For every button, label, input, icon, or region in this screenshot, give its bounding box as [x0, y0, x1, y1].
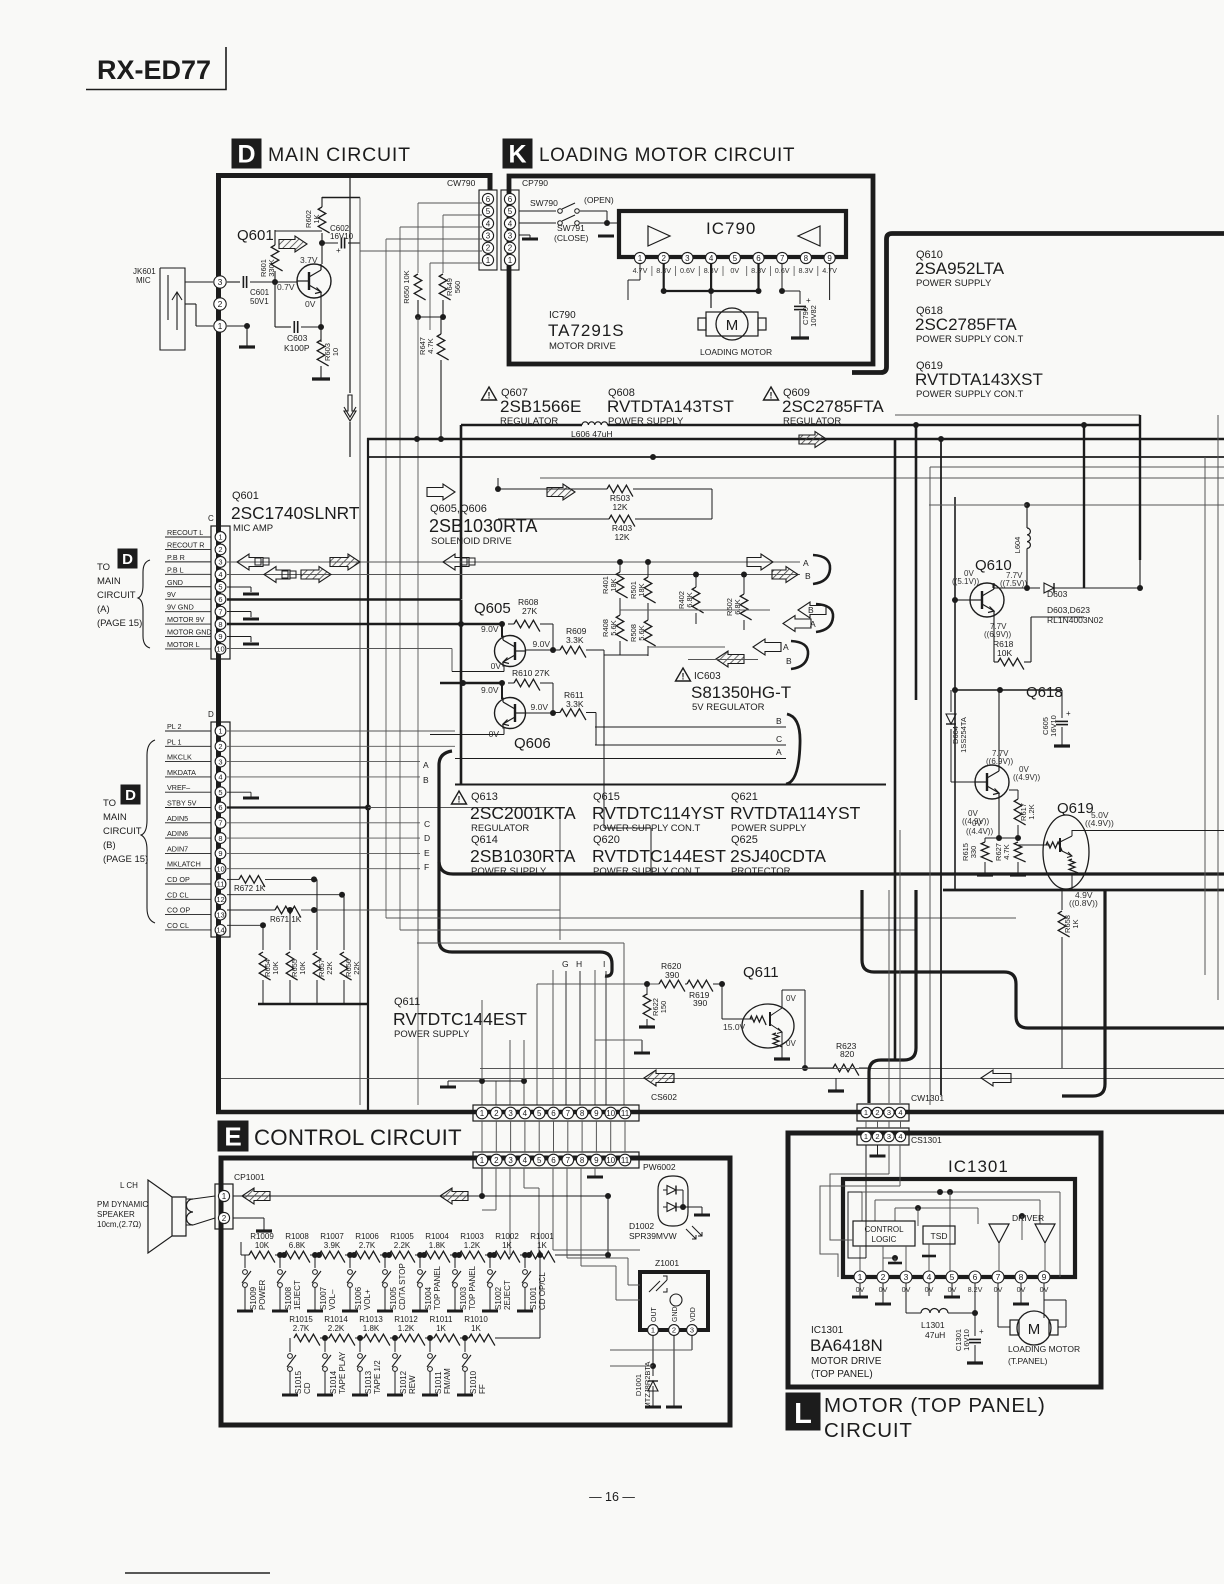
svg-text:S1015: S1015: [294, 1370, 303, 1394]
svg-text:3: 3: [218, 277, 223, 287]
regulator label IC603 S81350HG-T: [676, 668, 691, 681]
svg-text:Q601: Q601: [237, 227, 274, 244]
svg-text:S1010: S1010: [469, 1370, 478, 1394]
arrow feeds solenoid: [799, 432, 827, 448]
svg-text:POWER SUPPLY CON.T: POWER SUPPLY CON.T: [593, 823, 701, 834]
cable bundle bracket 2: [816, 604, 833, 632]
svg-text:CIRCUIT: CIRCUIT: [97, 590, 136, 601]
wire MOTOR 9V pin8 (thick): [227, 623, 502, 626]
key resistor ladder row 1: [241, 1254, 249, 1256]
svg-text:6.8K: 6.8K: [289, 1241, 306, 1250]
switch S1007 VOL–: [314, 1255, 316, 1268]
ground (S1002): [482, 1310, 498, 1313]
wire R609 route down: [603, 650, 605, 828]
svg-text:1: 1: [480, 1109, 485, 1118]
svg-text:R672 1K: R672 1K: [234, 884, 266, 893]
node pin P.B R: [215, 556, 226, 567]
node pin RECOUT L: [215, 532, 226, 543]
svg-text:LOADING MOTOR: LOADING MOTOR: [700, 347, 772, 357]
svg-text:12: 12: [216, 895, 224, 904]
switch S1010 FF: [464, 1338, 466, 1352]
svg-text:10K: 10K: [271, 961, 280, 974]
vertical feeders right: [894, 439, 897, 1060]
resistor R603 10: [320, 298, 322, 327]
svg-text:9V: 9V: [167, 590, 176, 599]
wire PW6002 to ground: [683, 1206, 702, 1208]
svg-text:S1007: S1007: [319, 1286, 328, 1310]
svg-text:2SC2785FTA: 2SC2785FTA: [782, 397, 884, 416]
svg-text:6: 6: [551, 1156, 556, 1165]
wire bus 6: [930, 504, 1224, 506]
resistor R627 4.7K: [1017, 841, 1019, 843]
node pin CD CL: [215, 894, 226, 905]
switch S1003 TOP PANEL: [454, 1255, 456, 1268]
node pin CD OP: [215, 879, 226, 890]
svg-text:8: 8: [218, 834, 222, 843]
svg-text:6.8K: 6.8K: [685, 592, 694, 607]
wire rail 784: [455, 784, 886, 786]
svg-text:F: F: [424, 862, 429, 872]
svg-text:3.9K: 3.9K: [324, 1241, 341, 1250]
LED emission arrows: [686, 1226, 702, 1239]
svg-text:6: 6: [486, 195, 491, 204]
svg-text:L604: L604: [1013, 537, 1022, 554]
svg-text:((4.4V)): ((4.4V)): [966, 827, 993, 836]
svg-text:VOL+: VOL+: [363, 1289, 372, 1310]
cable bundle thick 2: [439, 862, 1224, 874]
resistor R602 1K: [321, 197, 323, 207]
svg-text:R1015: R1015: [289, 1315, 313, 1324]
ground (S1015): [282, 1394, 298, 1397]
svg-text:MAIN: MAIN: [103, 812, 127, 823]
svg-text:TO: TO: [97, 562, 110, 573]
svg-text:2: 2: [218, 545, 222, 554]
svg-text:MOTOR 9V: MOTOR 9V: [167, 615, 205, 624]
svg-text:820: 820: [840, 1049, 854, 1059]
wire R620 rail: [537, 983, 659, 985]
wire CP1001 pin2 to ground: [233, 1217, 264, 1219]
TSD box: [923, 1226, 955, 1244]
svg-text:2SB1566E: 2SB1566E: [500, 397, 581, 416]
svg-text:3: 3: [218, 558, 222, 567]
svg-text:0V: 0V: [786, 994, 796, 1003]
cable bundle bracket 1: [813, 555, 830, 584]
svg-text:MKLATCH: MKLATCH: [167, 860, 201, 869]
switch S1006 VOL+: [349, 1255, 351, 1268]
wire D pin: [227, 852, 420, 854]
svg-text:CD OP: CD OP: [167, 875, 190, 884]
svg-text:6: 6: [508, 195, 513, 204]
svg-text:4: 4: [898, 1132, 902, 1141]
svg-text:A: A: [423, 760, 429, 770]
wire Q605 emitter to MOTOR L: [503, 665, 505, 672]
wire bundle verticals: [481, 1000, 483, 1105]
svg-text:CONTROL CIRCUIT: CONTROL CIRCUIT: [254, 1125, 462, 1150]
svg-text:(B): (B): [103, 840, 116, 851]
wire CO CL pin14: [227, 924, 263, 926]
svg-text:RVTDTC114YST: RVTDTC114YST: [592, 803, 725, 823]
wire D pin: [227, 761, 420, 763]
switch S1009 POWER: [244, 1255, 246, 1268]
svg-text:L: L: [794, 1398, 812, 1430]
wire collector node: [275, 230, 322, 232]
svg-text:5V REGULATOR: 5V REGULATOR: [692, 702, 765, 713]
switch S1004 TOP PANEL: [419, 1255, 421, 1268]
svg-text:Q621: Q621: [731, 791, 758, 803]
svg-text:10K: 10K: [298, 961, 307, 974]
wire 9V rail to Q606 (thick): [440, 682, 502, 685]
wire GND pin5 to ground: [227, 586, 251, 588]
wire CP1001 pin1 line: [233, 1195, 608, 1197]
svg-text:((7.5V)): ((7.5V)): [1000, 579, 1027, 588]
svg-text:16V10: 16V10: [962, 1329, 971, 1351]
svg-text:390: 390: [665, 970, 679, 980]
svg-text:S1013: S1013: [364, 1370, 373, 1394]
wire thin frame 930/467: [930, 466, 1224, 468]
svg-text:RVTDTA143XST: RVTDTA143XST: [915, 370, 1043, 389]
svg-text:1.2K: 1.2K: [398, 1324, 415, 1333]
svg-text:10V82: 10V82: [809, 305, 818, 327]
resistor R615 330: [985, 837, 1018, 839]
svg-text:Q613: Q613: [471, 791, 498, 803]
ground near CS602 right: [634, 1052, 650, 1055]
svg-text:((4.9V)): ((4.9V)): [1013, 773, 1040, 782]
svg-text:D603: D603: [1047, 589, 1068, 599]
svg-text:2: 2: [486, 244, 491, 253]
main circuit block D border: [219, 176, 491, 1113]
wires below IC1301 pins: [859, 1283, 861, 1296]
svg-text:2.7K: 2.7K: [293, 1324, 310, 1333]
svg-text:2SC2785FTA: 2SC2785FTA: [915, 315, 1017, 334]
switch S1012 REW: [394, 1338, 396, 1352]
svg-text:10: 10: [216, 864, 224, 873]
wire rail 1078: [221, 1078, 1224, 1080]
svg-text:TAPE PLAY: TAPE PLAY: [338, 1351, 347, 1394]
svg-text:!: !: [770, 391, 773, 401]
svg-text:CD OP/CL: CD OP/CL: [538, 1272, 547, 1310]
svg-text:(PAGE 15): (PAGE 15): [103, 854, 148, 865]
wire D pin: [227, 776, 420, 778]
cable thick W2: [869, 890, 916, 1103]
wire R611 to bundle: [595, 713, 597, 746]
ground (S1007): [307, 1310, 323, 1313]
svg-text:D: D: [122, 551, 133, 568]
capacitor C601 50V1: [227, 281, 240, 283]
ground (S1011): [422, 1394, 438, 1397]
svg-text:(A): (A): [97, 604, 110, 615]
IC1301 pins 1-9: [854, 1271, 866, 1283]
svg-text:1SS254TA: 1SS254TA: [959, 717, 968, 753]
svg-text:2: 2: [508, 244, 513, 253]
svg-text:1K: 1K: [436, 1324, 446, 1333]
svg-text:1: 1: [486, 256, 491, 265]
svg-text:10cm,(2.7Ω): 10cm,(2.7Ω): [97, 1220, 142, 1229]
svg-text:10K: 10K: [255, 1241, 270, 1250]
wire top rail Q601: [322, 197, 360, 199]
node pin MKDATA: [215, 772, 226, 783]
svg-text:4.7K: 4.7K: [426, 338, 435, 353]
node pin PL 2: [215, 726, 226, 737]
svg-text:11: 11: [217, 880, 225, 889]
svg-text:5: 5: [218, 582, 222, 591]
svg-text:6: 6: [218, 595, 222, 604]
svg-text:Q625: Q625: [731, 834, 758, 846]
wire bus 3: [368, 456, 1224, 458]
svg-text:1: 1: [864, 1108, 868, 1117]
resistor R654 10K: [262, 925, 264, 950]
svg-text:(OPEN): (OPEN): [584, 195, 614, 205]
resistor R502 6.8K: [740, 594, 751, 620]
wire rail 930: [400, 929, 916, 931]
svg-text:R1007: R1007: [320, 1232, 344, 1241]
svg-text:27K: 27K: [522, 606, 537, 616]
svg-text:MOTOR DRIVE: MOTOR DRIVE: [549, 341, 616, 352]
svg-text:FF: FF: [478, 1384, 487, 1394]
wire CD OP pin11: [227, 878, 239, 880]
node pin ADIN6: [215, 833, 226, 844]
svg-text:3: 3: [887, 1108, 891, 1117]
svg-text:POWER SUPPLY: POWER SUPPLY: [394, 1029, 470, 1040]
svg-text:2EJECT: 2EJECT: [503, 1280, 512, 1310]
capacitor C602 16V10: [340, 238, 342, 249]
svg-text:2: 2: [881, 1272, 886, 1282]
svg-text:0V: 0V: [730, 266, 739, 275]
svg-text:C: C: [424, 819, 430, 829]
svg-text:10K: 10K: [997, 648, 1012, 658]
resistor R617 1.2K: [998, 799, 1000, 838]
svg-text:MKDATA: MKDATA: [167, 768, 196, 777]
svg-text:JK601: JK601: [133, 267, 156, 276]
wire rail 1068: [480, 1068, 1224, 1070]
svg-text:MIC AMP: MIC AMP: [233, 523, 273, 534]
resistor R657 22K: [316, 879, 318, 950]
wire 9V vertical (thick): [460, 600, 463, 785]
switch S1015 CD: [289, 1338, 291, 1352]
svg-text:S1002: S1002: [494, 1286, 503, 1310]
svg-text:S1003: S1003: [459, 1286, 468, 1310]
svg-text:5: 5: [950, 1272, 955, 1282]
svg-text:R1014: R1014: [324, 1315, 348, 1324]
svg-text:G: G: [562, 959, 569, 969]
node pin CO CL: [215, 925, 226, 936]
svg-text:1: 1: [508, 256, 513, 265]
svg-text:C603: C603: [287, 333, 308, 343]
svg-text:Q615: Q615: [593, 791, 620, 803]
wire to cable B/A mid: [798, 602, 826, 618]
svg-text:S1006: S1006: [354, 1286, 363, 1310]
node pin GND: [215, 581, 226, 592]
svg-text:Q605: Q605: [474, 600, 511, 617]
ground (Q601 emitter): [312, 377, 330, 380]
wire STBY pin6 thick: [227, 806, 368, 808]
svg-text:R1009: R1009: [250, 1232, 274, 1241]
ground (C1301): [967, 1361, 983, 1364]
svg-text:TOP PANEL: TOP PANEL: [433, 1265, 442, 1310]
wires IC790 pins to motor bus: [663, 264, 665, 291]
svg-text:SPEAKER: SPEAKER: [97, 1210, 135, 1219]
svg-text:6: 6: [218, 803, 222, 812]
svg-text:18K: 18K: [637, 583, 646, 596]
arrows on P.B lines: [237, 554, 263, 570]
svg-text:7: 7: [566, 1156, 571, 1165]
svg-text:5.6K: 5.6K: [609, 620, 618, 635]
svg-text:R1002: R1002: [495, 1232, 519, 1241]
svg-text:MOTOR DRIVE: MOTOR DRIVE: [811, 1356, 882, 1367]
svg-text:7: 7: [996, 1272, 1001, 1282]
wire vertical 461: [460, 425, 463, 599]
svg-text:1: 1: [864, 1132, 868, 1141]
svg-text:13: 13: [216, 910, 224, 919]
switch S1011 FM/AM: [429, 1338, 431, 1352]
svg-text:Q614: Q614: [471, 834, 498, 846]
switch S1002 2EJECT: [489, 1255, 491, 1268]
ground (C790): [791, 336, 809, 339]
svg-text:MAIN CIRCUIT: MAIN CIRCUIT: [268, 144, 411, 166]
svg-text:2: 2: [875, 1108, 879, 1117]
svg-text:0.6V: 0.6V: [680, 266, 695, 275]
svg-text:S1005: S1005: [389, 1286, 398, 1310]
svg-text:9: 9: [218, 632, 222, 641]
svg-text:3: 3: [904, 1272, 909, 1282]
svg-text:4: 4: [709, 254, 714, 263]
svg-text:RVTDTA143TST: RVTDTA143TST: [607, 397, 734, 416]
switch S1001 CD OP/CL: [524, 1255, 526, 1268]
cable thick W3: [1062, 890, 1105, 1096]
svg-text:R1013: R1013: [359, 1315, 383, 1324]
wire CW790 feeds: [418, 202, 482, 204]
junction dots above CS602: [482, 1080, 524, 1082]
svg-text:+: +: [979, 1327, 984, 1336]
svg-text:8: 8: [218, 620, 222, 629]
svg-text:2: 2: [494, 1156, 499, 1165]
svg-text:((4.9V)): ((4.9V)): [962, 817, 989, 826]
svg-text:8: 8: [1019, 1272, 1024, 1282]
svg-text:MKCLK: MKCLK: [167, 753, 192, 762]
section label K LOADING MOTOR CIRCUIT: [503, 139, 532, 168]
svg-text:12K: 12K: [614, 532, 629, 542]
svg-text:K: K: [508, 141, 526, 169]
svg-text:Q619: Q619: [1057, 800, 1094, 817]
svg-text:MOTOR GND: MOTOR GND: [167, 628, 212, 637]
wire D pin: [227, 822, 420, 824]
svg-text:330: 330: [969, 846, 978, 859]
wire MOTOR L pin10: [227, 648, 452, 650]
connector CS602 row 1: [473, 1105, 639, 1121]
svg-text:3: 3: [508, 231, 513, 240]
svg-text:VDD: VDD: [690, 1307, 697, 1322]
svg-text:R1003: R1003: [460, 1232, 484, 1241]
wire VDD: [691, 1336, 693, 1350]
ground (R627): [1010, 873, 1026, 876]
svg-text:E: E: [424, 848, 430, 858]
resistor R622 150: [646, 984, 648, 995]
ground (S1006): [342, 1310, 358, 1313]
svg-text:H: H: [576, 959, 582, 969]
wire 9V pin6 (thick): [227, 598, 461, 601]
wires between CW1301/CS1301: [865, 1121, 867, 1128]
svg-text:POWER SUPPLY: POWER SUPPLY: [916, 278, 992, 289]
svg-text:50V1: 50V1: [250, 297, 269, 306]
svg-text:!: !: [488, 391, 491, 401]
svg-text:IC603: IC603: [694, 671, 721, 682]
motor top panel block L border: [788, 1133, 1101, 1387]
cable thick W1: [862, 890, 1224, 1028]
ground (S1012): [387, 1394, 403, 1397]
svg-text:4: 4: [508, 219, 513, 228]
wires between CS602 rows: [481, 1121, 483, 1152]
node pin PL 1: [215, 741, 226, 752]
svg-text:OUT: OUT: [651, 1307, 658, 1323]
svg-text:CONTROL: CONTROL: [864, 1225, 904, 1234]
wire D pin: [227, 745, 455, 747]
resistor R656 22K: [343, 895, 345, 950]
svg-text:DRIVER: DRIVER: [1012, 1213, 1044, 1223]
svg-text:D: D: [208, 710, 214, 719]
resistor R658 1K: [1061, 890, 1063, 910]
wire CO OP pin13: [227, 909, 275, 911]
ground left of CW1301: [835, 1078, 837, 1090]
svg-text:1K: 1K: [312, 214, 321, 223]
resistor R408 5.6K: [616, 615, 627, 641]
svg-text:RECOUT R: RECOUT R: [167, 540, 204, 549]
svg-text:S81350HG-T: S81350HG-T: [691, 683, 791, 702]
wire D pin: [227, 868, 420, 870]
node OUT GND VDD: [648, 1325, 659, 1336]
svg-text:1.2K: 1.2K: [1027, 804, 1036, 819]
svg-text:0.7V: 0.7V: [277, 282, 295, 292]
svg-text:R1006: R1006: [355, 1232, 379, 1241]
wire to cable A/B lower: [753, 639, 781, 655]
speaker coil: [187, 1199, 194, 1225]
svg-text:Q611: Q611: [743, 964, 779, 981]
resistor R403 12K: [498, 518, 609, 520]
svg-text:2SA952LTA: 2SA952LTA: [915, 259, 1005, 278]
svg-text:1.2K: 1.2K: [464, 1241, 481, 1250]
svg-text:1EJECT: 1EJECT: [293, 1280, 302, 1310]
wire MOTOR GND pin9 to ground: [227, 636, 251, 638]
wire thin feeders to CW1301: [888, 890, 890, 1103]
svg-text:0V: 0V: [305, 299, 316, 309]
svg-text:16V10: 16V10: [1049, 715, 1058, 737]
svg-text:D1001: D1001: [634, 1374, 643, 1396]
svg-text:10: 10: [216, 645, 224, 654]
svg-text:5: 5: [486, 207, 491, 216]
node pin MOTOR GND: [215, 631, 226, 642]
transistor label Q607 2SB1566E: [482, 387, 497, 400]
svg-text:1K: 1K: [537, 1241, 547, 1250]
resistor R655 10K: [289, 910, 291, 950]
node mic pins 3,2,1: [214, 276, 226, 288]
resistor R649 560: [439, 274, 450, 300]
svg-text:A: A: [776, 747, 782, 757]
svg-text:TSD: TSD: [931, 1231, 948, 1241]
node pin ADIN5: [215, 817, 226, 828]
svg-text:IC1301: IC1301: [948, 1157, 1009, 1176]
svg-text:R1010: R1010: [464, 1315, 488, 1324]
svg-text:P.B R: P.B R: [167, 553, 185, 562]
svg-text:BA6418N: BA6418N: [810, 1336, 883, 1355]
svg-text:R610 27K: R610 27K: [512, 668, 550, 678]
svg-text:(PAGE 15): (PAGE 15): [97, 618, 142, 629]
wire Q618 rail: [955, 689, 1062, 691]
signal arrow (mic): [279, 236, 307, 252]
svg-text:2: 2: [218, 299, 223, 309]
svg-text:M: M: [726, 317, 739, 334]
svg-text:ADIN7: ADIN7: [167, 844, 188, 853]
svg-text:B: B: [776, 716, 782, 726]
main bus / block D bottom border: [216, 1110, 1224, 1115]
svg-text:9: 9: [218, 849, 222, 858]
